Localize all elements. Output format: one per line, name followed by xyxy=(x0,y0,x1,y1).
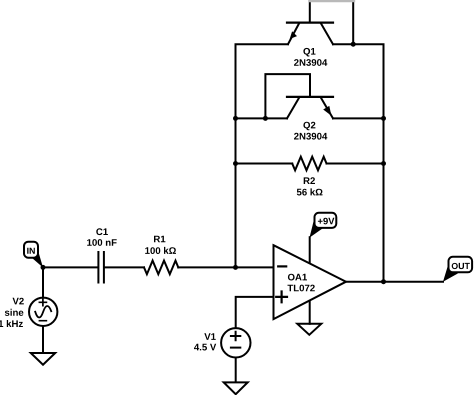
ground symbol (under V2) xyxy=(31,353,55,365)
op-amp OA1 (TL072) xyxy=(274,245,347,319)
junction: Q1 base loop on collector wire xyxy=(351,42,356,47)
junction: right rail at output xyxy=(381,279,386,284)
transistor Q2 (NPN 2N3904, diode-connected) xyxy=(287,97,333,119)
voltage source V1 (4.5 V DC) xyxy=(221,328,250,357)
value label TL072 xyxy=(288,285,315,292)
value label 100 nF xyxy=(87,239,117,246)
ground symbol (under V1) xyxy=(224,382,248,394)
label V2 xyxy=(13,298,24,305)
value label 56 kΩ xyxy=(297,188,323,195)
label V1 xyxy=(204,333,215,340)
value label 4.5 V xyxy=(194,344,216,351)
junction: Q2 base loop on collector wire xyxy=(263,116,268,121)
wire: Q2 collector wire (left) xyxy=(236,117,288,119)
wire: R2 left lead xyxy=(236,163,293,165)
resistor R1 xyxy=(144,261,178,275)
junction: left rail at Q2 wire xyxy=(233,116,238,121)
label Q2 xyxy=(303,122,315,131)
value label 1 kHz xyxy=(0,320,23,327)
capacitor C1 xyxy=(98,252,104,283)
label R1 xyxy=(154,236,165,243)
voltage source V2 (sine 1 kHz) xyxy=(29,298,57,326)
junction: right rail at R2 xyxy=(381,161,386,166)
value label 100 kΩ xyxy=(145,247,176,254)
value label 2N3904 (Q1) xyxy=(294,59,327,66)
ground symbol (op-amp V- pin) xyxy=(297,324,321,335)
wire: Q2 emitter wire (right) xyxy=(333,117,384,119)
resistor R2 xyxy=(292,157,326,171)
wire: op-amp output to OUT xyxy=(346,281,443,283)
wire: R2 right lead xyxy=(327,163,384,165)
wire: Q2 base-collector loop xyxy=(265,74,310,118)
wire: R1 to op-amp inverting input xyxy=(178,266,273,268)
junction: left rail at R2 xyxy=(233,161,238,166)
power flag +9V xyxy=(310,213,337,238)
label Q1 xyxy=(303,48,315,57)
wire: Q1 emitter wire to left vertical rail down to inverting input xyxy=(236,44,289,267)
node IN flag xyxy=(24,242,43,268)
node OUT flag xyxy=(443,257,472,282)
wire: V2 to ground xyxy=(42,327,44,352)
wire: V1 to ground xyxy=(235,358,237,381)
transistor Q1 (NPN 2N3904, diode-connected) xyxy=(287,23,333,45)
junction: right rail at Q2 wire xyxy=(381,116,386,121)
wire: op-amp V- pin to ground xyxy=(309,300,311,324)
value label sine xyxy=(5,309,24,316)
label R2 xyxy=(304,177,315,184)
junction: left rail at inverting input xyxy=(233,265,238,270)
wire: C1 to R1 xyxy=(105,266,144,268)
wire: +9V flag to op-amp V+ pin xyxy=(309,237,311,264)
wire: Q1 collector wire to right vertical rail down to output xyxy=(333,44,384,282)
label OA1 xyxy=(288,274,307,281)
label C1 xyxy=(96,228,108,235)
wire: op-amp non-inverting input to V1 xyxy=(236,297,274,327)
junction: IN node xyxy=(41,265,46,270)
wire: node IN down to V2 xyxy=(42,267,44,296)
wire: node IN to C1 xyxy=(43,266,97,268)
value label 2N3904 (Q2) xyxy=(294,133,327,140)
wire: Q1 base-collector loop xyxy=(310,0,353,44)
